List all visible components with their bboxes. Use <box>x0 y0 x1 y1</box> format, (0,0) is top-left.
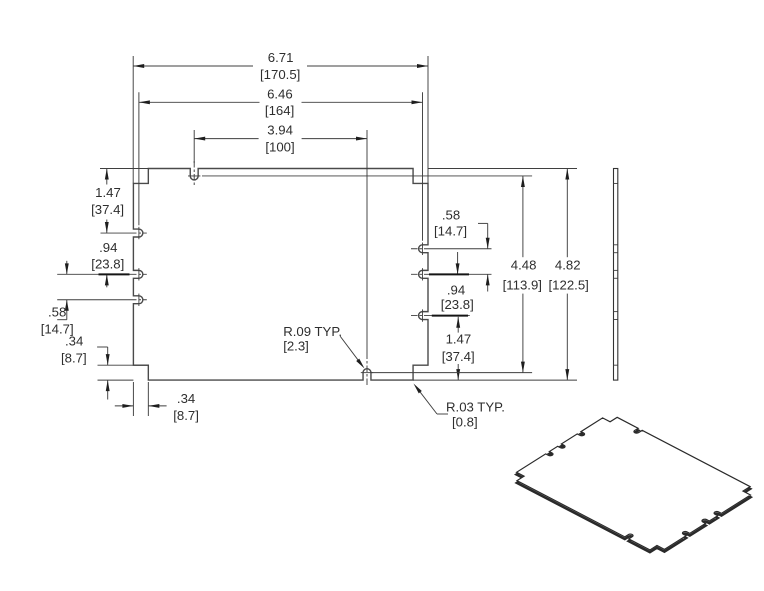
svg-text:.94: .94 <box>99 240 117 255</box>
svg-text:.94: .94 <box>447 282 465 297</box>
svg-text:[23.8]: [23.8] <box>441 297 474 312</box>
svg-text:[0.8]: [0.8] <box>452 415 478 430</box>
svg-text:4.82: 4.82 <box>555 258 581 273</box>
svg-text:[113.9]: [113.9] <box>503 277 542 292</box>
svg-text:[37.4]: [37.4] <box>91 202 124 217</box>
svg-text:R.09 TYP.: R.09 TYP. <box>283 324 342 339</box>
svg-text:[164]: [164] <box>265 103 294 118</box>
svg-text:[100]: [100] <box>265 139 294 154</box>
svg-text:[14.7]: [14.7] <box>434 223 467 238</box>
svg-text:[8.7]: [8.7] <box>61 350 87 365</box>
svg-text:[122.5]: [122.5] <box>549 277 589 292</box>
svg-text:1.47: 1.47 <box>446 332 472 347</box>
svg-text:.34: .34 <box>65 333 83 348</box>
svg-text:1.47: 1.47 <box>95 185 121 200</box>
svg-text:.58: .58 <box>442 207 460 222</box>
svg-text:4.48: 4.48 <box>511 258 537 273</box>
svg-text:R.03 TYP.: R.03 TYP. <box>446 400 505 415</box>
svg-text:6.46: 6.46 <box>267 86 293 101</box>
svg-text:3.94: 3.94 <box>267 123 293 138</box>
svg-text:.58: .58 <box>48 304 66 319</box>
svg-text:.34: .34 <box>177 391 195 406</box>
svg-text:6.71: 6.71 <box>268 50 294 65</box>
svg-text:[23.8]: [23.8] <box>91 256 124 271</box>
svg-text:[2.3]: [2.3] <box>283 339 309 354</box>
svg-text:[37.4]: [37.4] <box>442 349 475 364</box>
svg-text:[8.7]: [8.7] <box>173 408 199 423</box>
svg-text:[170.5]: [170.5] <box>260 67 300 82</box>
